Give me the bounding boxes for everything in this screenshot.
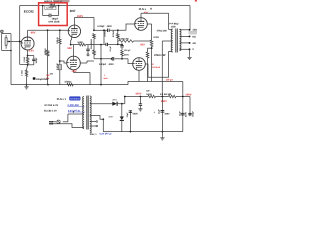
svg-text:5-12mA: 5-12mA — [152, 66, 160, 69]
svg-text:420V: 420V — [184, 112, 187, 117]
svg-text:0.1µF: 0.1µF — [109, 45, 112, 51]
svg-text:4mA: 4mA — [103, 77, 108, 80]
svg-text:1.7kΩ: 1.7kΩ — [46, 7, 53, 10]
svg-text:124 µF: 124 µF — [124, 49, 131, 52]
svg-text:8Ω: 8Ω — [192, 35, 195, 38]
svg-text:100µF: 100µF — [192, 110, 195, 117]
svg-text:2W: 2W — [50, 72, 53, 75]
svg-text:440V: 440V — [135, 93, 141, 96]
svg-text:470Ω: 470Ω — [153, 36, 159, 39]
svg-text:100kΩ: 100kΩ — [44, 48, 47, 55]
svg-text:56V: 56V — [67, 47, 72, 50]
svg-text:100µF/250V: 100µF/250V — [36, 78, 49, 81]
svg-text:B: B — [150, 8, 152, 11]
svg-text:0.33µF: 0.33µF — [97, 25, 105, 28]
svg-text:180µF: 180µF — [52, 18, 59, 21]
svg-text:180µF: 180µF — [35, 57, 38, 64]
svg-text:-32V: -32V — [71, 70, 77, 73]
svg-text:47kΩ 2W: 47kΩ 2W — [154, 54, 166, 57]
svg-text:6N7: 6N7 — [70, 9, 76, 13]
svg-text:22µF: 22µF — [179, 110, 182, 116]
svg-text:120Ω: 120Ω — [146, 93, 152, 96]
svg-text:250V: 250V — [124, 54, 129, 57]
svg-text:400V: 400V — [107, 25, 113, 28]
svg-text:500V: 500V — [133, 112, 139, 115]
svg-text:4Ω: 4Ω — [192, 42, 195, 45]
svg-text:47kΩ 2W: 47kΩ 2W — [157, 29, 168, 32]
svg-text:50V: 50V — [140, 43, 145, 46]
svg-text:3.2 kΩ 5W: 3.2 kΩ 5W — [160, 93, 172, 96]
svg-text:460V: 460V — [161, 100, 167, 103]
svg-text:40V: 40V — [144, 11, 149, 14]
svg-text:100kΩ: 100kΩ — [56, 37, 59, 44]
svg-text:NITSUKO: NITSUKO — [70, 97, 80, 100]
svg-text:150kΩ: 150kΩ — [64, 80, 71, 83]
svg-text:OPA 15dB: OPA 15dB — [48, 21, 59, 24]
svg-text:2.2kΩ: 2.2kΩ — [23, 56, 26, 62]
svg-text:15W: 15W — [171, 25, 177, 28]
svg-text:4007: 4007 — [108, 116, 114, 119]
svg-text:470kΩ: 470kΩ — [112, 30, 115, 37]
svg-text:100Ω: 100Ω — [77, 41, 83, 44]
svg-text:350V: 350V — [164, 112, 170, 115]
svg-text:3.9kΩ 2W: 3.9kΩ 2W — [119, 38, 130, 41]
svg-text:PLN x 1: PLN x 1 — [57, 98, 67, 101]
svg-text:ECC82 1 0V: ECC82 1 0V — [44, 109, 57, 112]
svg-text:100V, 1: 100V, 1 — [90, 133, 98, 136]
svg-text:4007: 4007 — [112, 98, 118, 101]
svg-text:0.47µF: 0.47µF — [56, 62, 59, 70]
svg-text:1W µA: 1W µA — [166, 79, 173, 82]
svg-text:1.2kΩ: 1.2kΩ — [21, 70, 24, 76]
svg-text:ECC82 & 0V: ECC82 & 0V — [45, 104, 59, 107]
svg-text:22µF: 22µF — [126, 112, 129, 118]
svg-text:ECC82: ECC82 — [24, 10, 34, 14]
svg-text:22µF: 22µF — [158, 108, 161, 114]
svg-text:390V: 390V — [185, 93, 191, 96]
svg-text:33kΩ: 33kΩ — [90, 39, 93, 44]
svg-text:P-P 8kΩ: P-P 8kΩ — [169, 22, 178, 25]
svg-text:2.4V: 2.4V — [29, 49, 35, 52]
svg-text:0.33µF: 0.33µF — [99, 63, 107, 66]
svg-text:400V: 400V — [108, 63, 114, 66]
svg-text:46V: 46V — [31, 32, 36, 35]
svg-text:6.3V (PY) 2: 6.3V (PY) 2 — [100, 133, 113, 136]
